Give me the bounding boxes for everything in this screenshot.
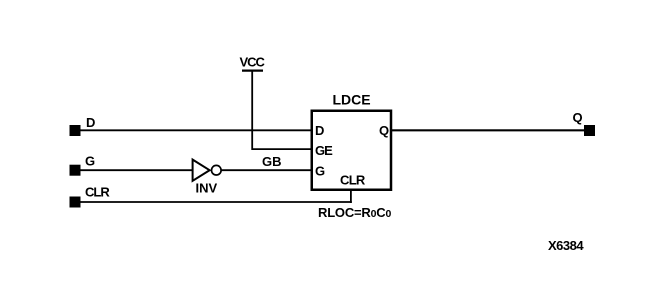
svg-text:RLOC=R0C0: RLOC=R0C0 [318, 205, 391, 220]
svg-text:CLR: CLR [85, 185, 110, 200]
svg-text:GE: GE [315, 143, 333, 158]
svg-text:D: D [315, 123, 324, 138]
svg-text:Q: Q [573, 110, 583, 125]
svg-text:INV: INV [196, 181, 218, 196]
svg-text:VCC: VCC [240, 55, 266, 70]
svg-text:X6384: X6384 [548, 238, 584, 253]
svg-text:GB: GB [262, 154, 282, 169]
svg-text:G: G [85, 153, 95, 168]
svg-text:D: D [86, 115, 95, 130]
svg-text:LDCE: LDCE [333, 92, 371, 108]
svg-text:CLR: CLR [340, 173, 366, 188]
svg-text:Q: Q [379, 123, 389, 138]
svg-text:G: G [315, 163, 325, 178]
